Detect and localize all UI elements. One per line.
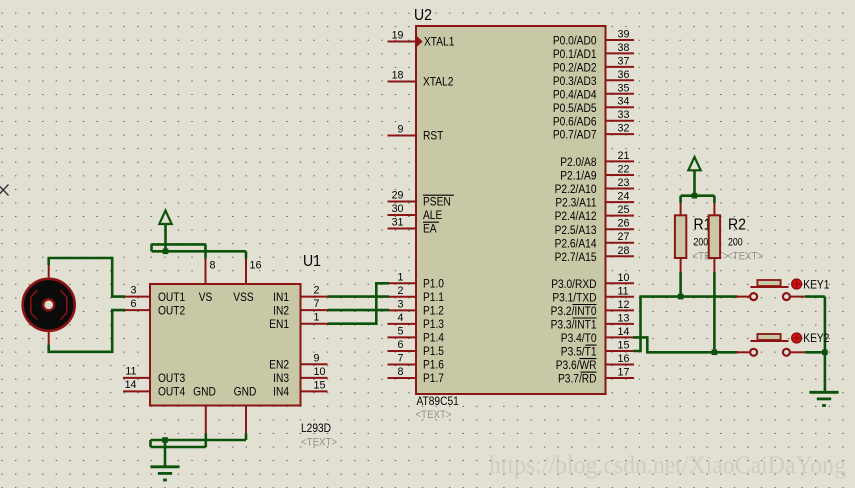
svg-text:5: 5 (398, 325, 404, 337)
svg-text:KEY1: KEY1 (803, 279, 829, 292)
svg-text:30: 30 (392, 203, 404, 215)
svg-text:13: 13 (618, 312, 630, 324)
svg-text:P1.4: P1.4 (423, 332, 444, 345)
svg-text:P0.6/AD6: P0.6/AD6 (553, 116, 597, 129)
svg-text:37: 37 (618, 55, 630, 67)
svg-text:2: 2 (314, 285, 320, 297)
svg-text:9: 9 (398, 124, 404, 136)
svg-text:P0.5/AD5: P0.5/AD5 (553, 102, 597, 115)
svg-text:P3.0/RXD: P3.0/RXD (551, 278, 596, 291)
svg-text:P1.5: P1.5 (423, 346, 444, 359)
svg-text:R2: R2 (728, 216, 746, 234)
svg-text:KEY2: KEY2 (803, 332, 829, 345)
svg-text:8: 8 (210, 260, 216, 272)
svg-text:XTAL2: XTAL2 (423, 76, 453, 89)
svg-text:3: 3 (398, 298, 404, 310)
svg-text:35: 35 (618, 82, 630, 94)
svg-text:33: 33 (618, 109, 630, 121)
svg-text:U1: U1 (303, 252, 321, 270)
svg-text:21: 21 (618, 150, 630, 162)
svg-text:6: 6 (131, 298, 137, 310)
svg-text:VSS: VSS (233, 291, 253, 304)
svg-text:P3.6/WR: P3.6/WR (556, 359, 597, 372)
svg-text:27: 27 (618, 231, 630, 243)
svg-text:L293D: L293D (301, 422, 331, 435)
svg-text:34: 34 (618, 96, 630, 108)
svg-text:P2.3/A11: P2.3/A11 (555, 197, 596, 210)
svg-text:P2.6/A14: P2.6/A14 (555, 238, 597, 251)
svg-text:14: 14 (618, 326, 630, 338)
svg-text:P0.7/AD7: P0.7/AD7 (553, 129, 597, 142)
svg-text:P2.2/A10: P2.2/A10 (555, 183, 597, 196)
svg-text:31: 31 (392, 217, 404, 229)
svg-text:P0.0/AD0: P0.0/AD0 (553, 35, 597, 48)
svg-text:P2.5/A13: P2.5/A13 (555, 224, 597, 237)
svg-text:OUT1: OUT1 (158, 291, 185, 304)
svg-text:4: 4 (398, 312, 404, 324)
svg-text:P1.0: P1.0 (423, 278, 444, 291)
svg-text:200: 200 (694, 237, 709, 249)
svg-text:38: 38 (618, 42, 630, 54)
svg-text:XTAL1: XTAL1 (424, 36, 454, 49)
svg-text:P3.2/INT0: P3.2/INT0 (551, 305, 597, 318)
svg-text:28: 28 (618, 245, 630, 257)
svg-text:P3.7/RD: P3.7/RD (558, 373, 597, 386)
svg-text:32: 32 (618, 123, 630, 135)
svg-text:P3.1/TXD: P3.1/TXD (552, 292, 596, 305)
svg-text:3: 3 (131, 284, 137, 296)
svg-text:15: 15 (618, 340, 630, 352)
svg-text:GND: GND (234, 386, 257, 399)
svg-text:RST: RST (423, 130, 444, 143)
svg-text:25: 25 (618, 204, 630, 216)
svg-text:16: 16 (250, 260, 262, 272)
svg-text:36: 36 (618, 69, 630, 81)
svg-text:P1.6: P1.6 (423, 359, 444, 372)
svg-text:EA: EA (423, 223, 437, 236)
svg-text:19: 19 (392, 30, 404, 42)
svg-text:ALE: ALE (423, 210, 442, 223)
svg-text:8: 8 (398, 366, 404, 378)
svg-text:16: 16 (618, 353, 630, 365)
svg-text:39: 39 (618, 29, 630, 41)
svg-text:6: 6 (398, 339, 404, 351)
svg-text:<TEXT>: <TEXT> (727, 251, 763, 263)
svg-text:<TEXT>: <TEXT> (301, 437, 337, 449)
svg-text:AT89C51: AT89C51 (417, 395, 459, 408)
svg-text:P2.7/A15: P2.7/A15 (555, 251, 597, 264)
svg-text:26: 26 (618, 218, 630, 230)
svg-text:P0.2/AD2: P0.2/AD2 (553, 62, 597, 75)
svg-text:VS: VS (199, 291, 213, 304)
svg-text:P2.0/A8: P2.0/A8 (560, 156, 596, 169)
svg-text:GND: GND (193, 386, 216, 399)
svg-text:12: 12 (618, 299, 630, 311)
svg-text:P0.3/AD3: P0.3/AD3 (553, 75, 597, 88)
svg-text:P3.5/T1: P3.5/T1 (561, 346, 597, 359)
svg-text:2: 2 (398, 285, 404, 297)
svg-text:7: 7 (398, 353, 404, 365)
svg-text:OUT2: OUT2 (158, 305, 185, 318)
svg-text:11: 11 (125, 366, 136, 378)
svg-text:200: 200 (728, 237, 743, 249)
svg-text:P1.1: P1.1 (423, 291, 444, 304)
svg-text:IN2: IN2 (273, 305, 289, 318)
svg-text:7: 7 (314, 298, 320, 310)
svg-text:EN1: EN1 (269, 318, 289, 331)
svg-text:10: 10 (618, 272, 630, 284)
svg-text:P2.1/A9: P2.1/A9 (560, 170, 596, 183)
svg-text:18: 18 (392, 70, 404, 82)
svg-text:9: 9 (314, 352, 320, 364)
svg-text:P2.4/A12: P2.4/A12 (555, 211, 597, 224)
svg-text:P1.7: P1.7 (423, 373, 444, 386)
svg-text:24: 24 (618, 191, 630, 203)
svg-text:15: 15 (314, 379, 326, 391)
svg-text:14: 14 (125, 379, 137, 391)
svg-text:P0.4/AD4: P0.4/AD4 (553, 89, 597, 102)
svg-text:29: 29 (392, 190, 404, 202)
svg-text:IN1: IN1 (273, 291, 289, 304)
svg-text:10: 10 (314, 366, 326, 378)
svg-text:P0.1/AD1: P0.1/AD1 (553, 48, 597, 61)
svg-text:17: 17 (618, 367, 630, 379)
svg-text:IN4: IN4 (273, 386, 289, 399)
svg-text:U2: U2 (414, 6, 432, 24)
svg-text:1: 1 (314, 312, 320, 324)
svg-text:P3.4/T0: P3.4/T0 (561, 332, 597, 345)
svg-text:IN3: IN3 (273, 372, 289, 385)
svg-text:EN2: EN2 (269, 359, 289, 372)
svg-text:11: 11 (618, 285, 629, 297)
svg-text:P1.3: P1.3 (423, 318, 444, 331)
svg-text:PSEN: PSEN (423, 196, 451, 209)
svg-text:OUT4: OUT4 (158, 386, 185, 399)
svg-text:OUT3: OUT3 (158, 372, 185, 385)
svg-text:P1.2: P1.2 (423, 305, 444, 318)
svg-text:P3.3/INT1: P3.3/INT1 (551, 319, 597, 332)
svg-text:23: 23 (618, 177, 630, 189)
svg-text:1: 1 (398, 271, 404, 283)
svg-text:<TEXT>: <TEXT> (416, 410, 452, 422)
svg-text:https://blog.csdn.net/XiaoCaiD: https://blog.csdn.net/XiaoCaiDaYong (489, 452, 846, 479)
svg-text:22: 22 (618, 164, 630, 176)
